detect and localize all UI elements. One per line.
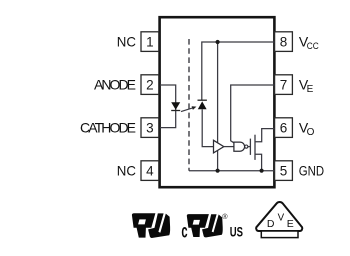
svg-text:E: E [307,84,314,95]
svg-text:1: 1 [146,34,154,49]
IC body outline [160,17,275,187]
cUL mark: UL symbol [187,214,223,237]
svg-text:V: V [278,213,285,224]
isolation barrier dashed line [188,39,190,171]
UL recognized mark [132,213,170,238]
junction dot VCC rail [216,40,220,44]
pin 6 box [275,118,293,138]
wire anode loop pin2 to pin3 through LED [160,85,176,128]
pin 4 box [141,161,159,181]
junction dot amp ground [216,169,220,173]
svg-text:8: 8 [280,34,288,49]
svg-text:7: 7 [280,77,288,92]
pin 1 box [141,32,159,52]
MOSFET gate bar [249,139,251,155]
svg-text:5: 5 [280,163,288,178]
svg-text:D: D [267,218,275,230]
svg-text:GND: GND [299,164,325,179]
photodiode triangle [198,101,207,109]
svg-text:4: 4 [146,163,154,178]
svg-text:US: US [230,224,243,240]
svg-text:E: E [287,218,294,230]
wire source to GND rail [255,154,262,170]
VDE logo pedestal [261,231,298,238]
svg-text:O: O [307,127,315,138]
svg-text:CATHODE: CATHODE [80,120,136,136]
svg-text:CC: CC [307,41,319,52]
LED D1 triangle [171,102,180,110]
MOSFET channel bar [254,135,256,160]
svg-text:3: 3 [146,120,154,135]
output bubble [245,145,248,148]
wire VCC rail pin8 to photodiode [202,42,275,100]
pin 5 box [275,161,293,181]
photodiode cathode bar [198,99,207,101]
light emission arrow [181,108,193,112]
amplifier buffer triangle [214,140,224,153]
VDE logo triangle [256,202,302,231]
svg-text:ANODE: ANODE [94,77,136,93]
LED D1 cathode bar [171,110,180,112]
wire VE pin7 to gate [231,85,275,143]
svg-text:6: 6 [280,120,288,135]
pin 3 box [141,118,159,138]
svg-text:c: c [181,220,187,242]
GND rail to pin5 [189,170,275,172]
svg-text:NC: NC [117,34,136,50]
svg-text:®: ® [222,212,228,221]
AND gate [234,142,245,151]
wire photodiode to buffer input [202,109,213,146]
pin 7 box [275,75,293,95]
wire amplifier power vertical [217,42,219,171]
svg-text:2: 2 [146,77,154,92]
pin 2 box [141,75,159,95]
wire bubble to MOSFET gate [248,146,251,148]
svg-text:NC: NC [117,163,136,179]
junction dot source ground [260,169,264,173]
wire buffer to gate [224,146,234,148]
pin 8 box [275,32,293,52]
wire drain to pin6 [255,129,275,142]
